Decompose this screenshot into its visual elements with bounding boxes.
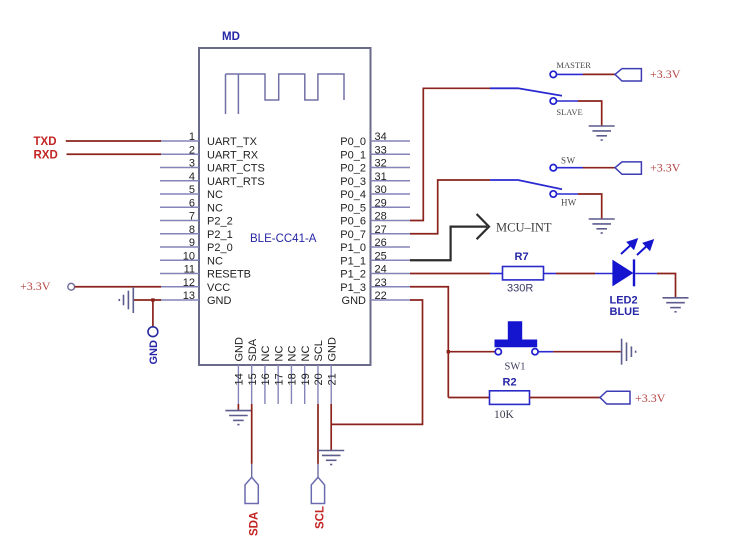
svg-text:10: 10 <box>183 250 195 262</box>
svg-text:R7: R7 <box>515 251 529 263</box>
wire pin 21 to ground <box>330 404 332 451</box>
svg-text:P1_1: P1_1 <box>340 255 366 267</box>
wire R7 to LED2 <box>544 273 557 275</box>
LED2 diode triangle <box>613 261 633 286</box>
ground (pin 14) <box>225 411 251 425</box>
svg-text:P1_3: P1_3 <box>340 282 366 294</box>
antenna meander inside IC <box>226 74 345 114</box>
wire HW contact to ground <box>557 193 579 195</box>
GND port circle <box>148 327 158 337</box>
svg-text:+3.3V: +3.3V <box>20 279 51 293</box>
svg-text:+3.3V: +3.3V <box>650 67 681 81</box>
wire TXD to pin 1 <box>66 140 161 142</box>
pin 29 stub (P0_5) <box>371 206 411 208</box>
pin 21 stub (GND) <box>330 365 332 404</box>
svg-text:MASTER: MASTER <box>556 60 591 70</box>
svg-text:P0_6: P0_6 <box>340 216 366 228</box>
svg-text:12: 12 <box>183 277 195 289</box>
pin 24 stub (P1_2) <box>371 273 411 275</box>
push button SW1 actuator <box>495 322 537 347</box>
svg-text:BLE-CC41-A: BLE-CC41-A <box>250 233 317 245</box>
svg-text:SDA: SDA <box>248 512 260 536</box>
pin 9 stub (P2_0) <box>160 246 199 248</box>
svg-text:RXD: RXD <box>34 150 58 162</box>
svg-text:NC: NC <box>287 346 299 362</box>
pin 13 stub (GND) <box>160 299 199 301</box>
svg-text:16: 16 <box>260 373 272 385</box>
SLAVE contact circle <box>550 98 556 104</box>
svg-text:P2_2: P2_2 <box>207 216 233 228</box>
pin 8 stub (P2_1) <box>160 233 199 235</box>
ground (hw) <box>589 219 615 233</box>
svg-text:MD: MD <box>222 31 240 43</box>
pin 10 stub (NC) <box>160 259 199 261</box>
svg-text:GND: GND <box>234 337 246 362</box>
LED2 cathode bar <box>633 259 635 286</box>
pin 16 stub (NC) <box>264 365 266 404</box>
svg-text:13: 13 <box>183 290 195 302</box>
wire SW1 to ground <box>538 351 553 353</box>
wire pin 27 to SW/HW switch common <box>410 180 490 234</box>
svg-text:MCU–INT: MCU–INT <box>496 221 552 235</box>
ground (pin 21) <box>318 451 344 465</box>
wire pin23 rail to R2 <box>448 397 490 399</box>
svg-text:4: 4 <box>189 171 195 183</box>
resistor R7 <box>503 267 544 280</box>
svg-text:P0_3: P0_3 <box>340 176 366 188</box>
pin 14 stub (GND) <box>237 365 239 404</box>
ground (sw1, right-facing) <box>622 339 636 365</box>
junction at SW1 row <box>447 350 450 353</box>
LED2 emission arrows <box>621 240 653 255</box>
svg-text:P0_7: P0_7 <box>340 229 366 241</box>
SW1 left contact circle <box>495 349 501 355</box>
wire pin 28 to master/slave switch common <box>410 88 490 220</box>
svg-text:UART_RTS: UART_RTS <box>207 176 265 188</box>
wire pin 15 SDA <box>251 404 253 464</box>
svg-text:34: 34 <box>375 131 387 143</box>
+3.3V connector flag (r2) <box>600 391 630 404</box>
pin 22 stub (GND) <box>371 299 411 301</box>
pin 31 stub (P0_3) <box>371 180 411 182</box>
pin 11 stub (RESETB) <box>160 273 199 275</box>
svg-text:7: 7 <box>189 211 195 223</box>
wire SLAVE contact to ground <box>557 100 579 102</box>
svg-text:NC: NC <box>207 202 223 214</box>
wire +3.3V to pin 12 <box>75 286 161 288</box>
pin 6 stub (NC) <box>160 206 199 208</box>
svg-text:18: 18 <box>287 373 299 385</box>
switch S1 lever (slave position) <box>490 88 562 96</box>
svg-text:8: 8 <box>189 224 195 236</box>
svg-text:P2_1: P2_1 <box>207 229 233 241</box>
svg-text:RESETB: RESETB <box>207 269 251 281</box>
svg-text:SW1: SW1 <box>505 362 526 373</box>
wire SW contact to +3.3V <box>557 167 584 169</box>
svg-text:TXD: TXD <box>34 136 57 148</box>
svg-text:31: 31 <box>375 171 387 183</box>
svg-text:UART_CTS: UART_CTS <box>207 163 265 175</box>
pin 12 stub (VCC) <box>160 286 199 288</box>
svg-text:NC: NC <box>273 346 285 362</box>
svg-text:9: 9 <box>189 237 195 249</box>
wire pin 13 GND <box>133 299 161 301</box>
ground (slave) <box>589 126 615 140</box>
svg-text:11: 11 <box>184 264 195 276</box>
ground (led2) <box>663 298 689 312</box>
ground (left-facing) at pin 13 <box>119 287 133 313</box>
svg-text:GND: GND <box>207 295 232 307</box>
pin 30 stub (P0_4) <box>371 193 411 195</box>
pin 32 stub (P0_2) <box>371 167 411 169</box>
svg-text:19: 19 <box>300 373 312 385</box>
SCL connector flag <box>311 477 324 503</box>
svg-text:25: 25 <box>375 250 387 262</box>
svg-text:14: 14 <box>234 373 246 385</box>
pin 7 stub (P2_2) <box>160 220 199 222</box>
svg-text:6: 6 <box>189 197 195 209</box>
svg-text:+3.3V: +3.3V <box>650 161 681 175</box>
svg-text:HW: HW <box>561 198 577 208</box>
svg-text:UART_TX: UART_TX <box>207 136 258 148</box>
svg-text:22: 22 <box>375 290 387 302</box>
wire pin 22 to pin 21 ground rail <box>331 300 422 424</box>
svg-text:P2_0: P2_0 <box>207 242 233 254</box>
svg-text:NC: NC <box>207 189 223 201</box>
svg-text:SW: SW <box>561 156 576 166</box>
wire pin 14 to ground <box>237 404 239 411</box>
+3.3V connector flag (master) <box>615 69 641 81</box>
pin 23 stub (P1_3) <box>371 286 411 288</box>
svg-text:2: 2 <box>189 144 195 156</box>
pin 27 stub (P0_7) <box>371 233 411 235</box>
svg-text:32: 32 <box>375 158 387 170</box>
pin 3 stub (UART_CTS) <box>160 167 199 169</box>
+3.3V connector flag (sw) <box>615 162 641 174</box>
svg-text:R2: R2 <box>503 377 517 389</box>
svg-text:1: 1 <box>189 131 195 143</box>
svg-text:20: 20 <box>313 373 325 385</box>
wire pin 20 SCL <box>317 404 319 464</box>
svg-text:P0_0: P0_0 <box>340 136 366 148</box>
pin 20 stub (SCL) <box>317 365 319 404</box>
svg-text:5: 5 <box>189 184 195 196</box>
svg-text:17: 17 <box>273 373 285 385</box>
pin 5 stub (NC) <box>160 193 199 195</box>
MASTER contact circle <box>550 71 556 77</box>
wire pin 24 to R7 <box>410 273 490 275</box>
svg-text:26: 26 <box>375 237 387 249</box>
SDA connector flag <box>245 477 258 503</box>
svg-text:21: 21 <box>326 373 338 385</box>
pin 18 stub (NC) <box>290 365 292 404</box>
svg-text:30: 30 <box>375 184 387 196</box>
svg-text:P0_2: P0_2 <box>340 163 366 175</box>
pin 28 stub (P0_6) <box>371 220 411 222</box>
pin 34 stub (P0_0) <box>371 140 411 142</box>
svg-text:P1_0: P1_0 <box>340 242 366 254</box>
wire LED2 to ground <box>635 273 657 275</box>
pin 19 stub (NC) <box>304 365 306 404</box>
svg-text:NC: NC <box>260 346 272 362</box>
HW contact circle <box>550 191 556 197</box>
wire pin 23 down the left rail <box>410 287 448 398</box>
pin 17 stub (NC) <box>277 365 279 404</box>
svg-text:23: 23 <box>375 277 387 289</box>
switch S2 lever (hw position) <box>490 180 562 189</box>
svg-text:NC: NC <box>300 346 312 362</box>
SW contact circle <box>550 165 556 171</box>
svg-text:SCL: SCL <box>315 506 327 529</box>
svg-text:GND: GND <box>326 337 338 362</box>
svg-text:SCL: SCL <box>313 340 325 361</box>
svg-text:P0_5: P0_5 <box>340 202 366 214</box>
svg-text:15: 15 <box>247 373 259 385</box>
svg-text:LED2: LED2 <box>610 295 638 307</box>
wire RXD to pin 2 <box>67 153 162 155</box>
MCU-INT arrowhead <box>477 214 489 239</box>
wire down to GND port <box>152 300 154 327</box>
svg-text:24: 24 <box>375 264 387 276</box>
svg-text:BLUE: BLUE <box>610 306 640 318</box>
pin 25 stub (P1_1) <box>371 259 411 261</box>
svg-text:SDA: SDA <box>247 338 259 361</box>
terminal circle VCC <box>68 283 75 290</box>
svg-text:UART_RX: UART_RX <box>207 149 259 161</box>
svg-text:28: 28 <box>375 211 387 223</box>
SW1 right contact circle <box>532 349 538 355</box>
svg-text:P0_1: P0_1 <box>340 149 366 161</box>
svg-text:10K: 10K <box>494 409 515 421</box>
wire to SW1 left contact <box>448 351 495 353</box>
svg-text:P0_4: P0_4 <box>340 189 366 201</box>
svg-text:+3.3V: +3.3V <box>635 391 666 405</box>
svg-text:3: 3 <box>189 158 195 170</box>
wire MASTER contact to +3.3V <box>557 73 584 75</box>
wire R2 to +3.3V <box>530 397 601 399</box>
svg-text:GND: GND <box>148 340 160 365</box>
svg-text:29: 29 <box>375 197 387 209</box>
svg-text:33: 33 <box>375 144 387 156</box>
pin 26 stub (P1_0) <box>371 246 411 248</box>
wire pin 25 MCU-INT arrow <box>410 227 487 261</box>
svg-text:VCC: VCC <box>207 282 230 294</box>
IC module MD (BLE-CC41-A) body <box>199 48 371 365</box>
pin 1 stub (UART_TX) <box>160 140 199 142</box>
junction on pin 13 wire <box>151 298 154 301</box>
svg-text:27: 27 <box>375 224 387 236</box>
resistor R2 <box>490 391 530 405</box>
pin 2 stub (UART_RX) <box>160 153 199 155</box>
svg-text:GND: GND <box>342 295 367 307</box>
pin 15 stub (SDA) <box>251 365 253 404</box>
svg-text:SLAVE: SLAVE <box>556 107 582 117</box>
svg-text:P1_2: P1_2 <box>340 269 366 281</box>
svg-text:NC: NC <box>207 255 223 267</box>
svg-text:330R: 330R <box>507 283 533 295</box>
pin 4 stub (UART_RTS) <box>160 180 199 182</box>
pin 33 stub (P0_1) <box>371 153 411 155</box>
